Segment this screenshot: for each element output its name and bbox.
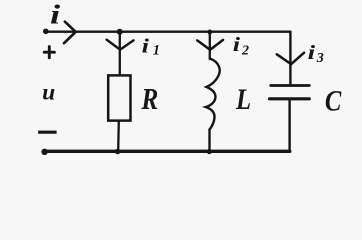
minus sign <box>38 131 57 134</box>
svg-text:2: 2 <box>241 44 249 59</box>
svg-text:u: u <box>42 80 55 106</box>
capacitor C top plate <box>271 84 310 87</box>
node bottom junction dot resistor branch <box>115 149 121 155</box>
inductor L coil <box>206 59 220 130</box>
wire capacitor bottom lead <box>288 100 290 152</box>
current arrow i1 <box>107 40 134 50</box>
wire inductor top lead <box>209 32 211 59</box>
wire top horizontal <box>46 31 290 33</box>
resistor R <box>108 75 130 120</box>
svg-text:i: i <box>142 35 150 57</box>
node left bottom terminal <box>41 149 47 155</box>
wire bottom horizontal <box>45 150 290 153</box>
svg-text:R: R <box>141 83 159 117</box>
node left top terminal <box>43 29 49 35</box>
svg-text:i: i <box>50 0 60 29</box>
wire inductor bottom lead <box>208 130 210 152</box>
svg-text:C: C <box>325 84 342 117</box>
wire capacitor top lead with corner <box>289 32 291 84</box>
plus sign <box>44 47 54 58</box>
wire resistor top lead <box>119 32 121 76</box>
capacitor C bottom plate <box>270 97 310 100</box>
node bottom junction dot inductor branch <box>207 149 212 154</box>
svg-text:L: L <box>235 83 251 116</box>
wire resistor bottom lead <box>117 121 120 152</box>
node A junction dot resistor branch <box>117 29 123 35</box>
node B junction dot inductor branch <box>207 30 212 35</box>
current arrow i2 <box>197 40 223 50</box>
current arrow i on top wire <box>64 22 76 44</box>
svg-text:1: 1 <box>153 43 160 59</box>
svg-text:3: 3 <box>316 51 324 66</box>
svg-text:i: i <box>308 42 316 64</box>
svg-text:i: i <box>233 34 241 56</box>
current arrow i3 <box>277 53 304 64</box>
